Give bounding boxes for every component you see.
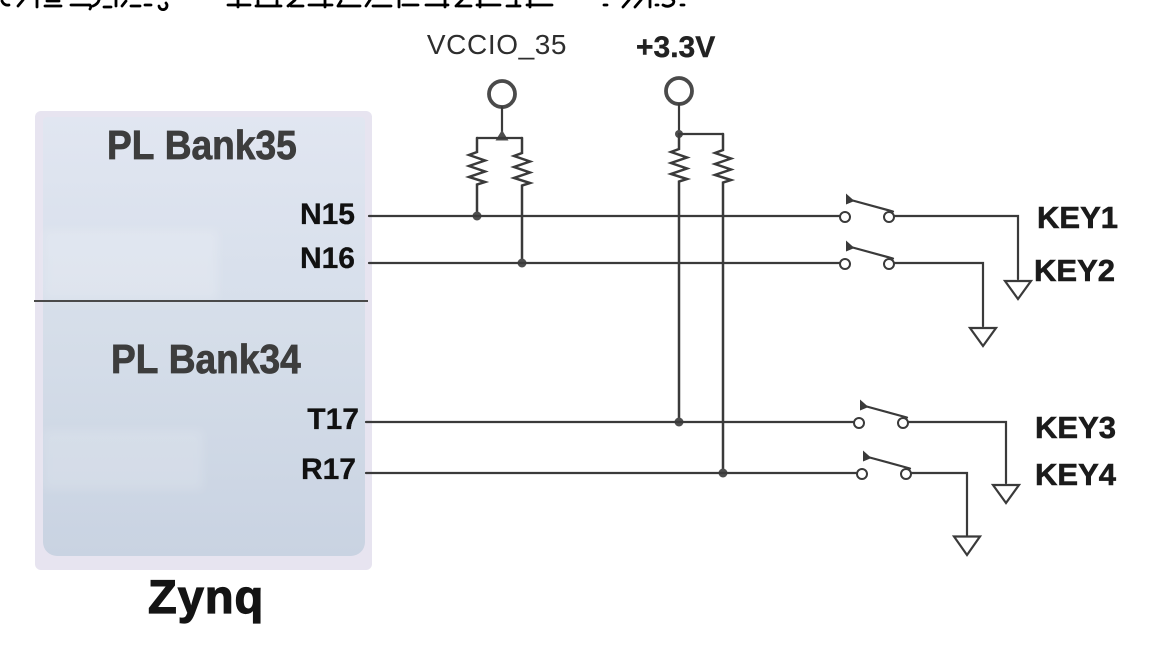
power port +3.3V circle xyxy=(666,78,692,104)
power port VCCIO_35 circle xyxy=(489,81,515,107)
switch KEY2 actuator arrow xyxy=(846,241,855,252)
switch KEY4 left contact xyxy=(857,469,867,479)
net label KEY1 xyxy=(1037,200,1118,236)
junction dot R17/resistor xyxy=(719,469,728,478)
cropped caption text bottoms (top edge) xyxy=(2,0,167,10)
label Zynq xyxy=(148,569,264,624)
switch KEY1 right contact xyxy=(884,212,894,222)
junction dot N15/resistor xyxy=(473,212,482,221)
switch KEY1 lever xyxy=(849,200,893,212)
net label KEY2 xyxy=(1034,253,1115,289)
resistor R_R17 pull-up xyxy=(715,134,731,473)
switch KEY2 right contact xyxy=(884,259,894,269)
junction dot +3.3V tee xyxy=(675,130,683,138)
wire +3.3V tee bar xyxy=(679,133,723,135)
switch KEY3 actuator arrow xyxy=(860,400,869,411)
switch KEY2 lever xyxy=(849,247,893,259)
pin label N16 xyxy=(300,242,355,276)
Zynq IC body outer halo xyxy=(35,111,372,570)
junction dot N16/resistor xyxy=(518,259,527,268)
net label KEY3 xyxy=(1035,410,1116,446)
ground KEY2 xyxy=(970,328,996,346)
switch KEY1 left contact xyxy=(840,212,850,222)
net label VCCIO_35 xyxy=(427,29,567,61)
resistor R_N16 pull-up xyxy=(514,138,530,263)
switch KEY2 left contact xyxy=(840,259,850,269)
switch KEY4 actuator arrow xyxy=(863,451,872,462)
Zynq PL Bank35 section fill xyxy=(43,117,365,301)
Zynq PL Bank34 section fill xyxy=(43,301,365,556)
wire KEY4 to ground corner xyxy=(911,473,967,535)
wire VCCIO stem xyxy=(501,107,503,138)
pin label R17 xyxy=(301,453,356,487)
Bank35 inner highlight patch xyxy=(43,230,218,300)
switch KEY4 right contact xyxy=(901,469,911,479)
switch KEY1 actuator arrow xyxy=(846,194,855,205)
wire N16 xyxy=(369,262,839,264)
wire R17 xyxy=(366,472,856,474)
wire +3.3V stem xyxy=(678,104,680,134)
ground KEY1 xyxy=(1005,281,1031,299)
bank separator line xyxy=(34,300,368,302)
junction VCCIO stem arrow xyxy=(496,130,509,141)
switch KEY3 left contact xyxy=(854,418,864,428)
switch KEY3 right contact xyxy=(898,418,908,428)
ground KEY4 xyxy=(954,537,980,556)
label PL Bank35 xyxy=(107,122,297,169)
pin label N15 xyxy=(300,198,355,232)
wire VCCIO tee bar xyxy=(477,137,522,139)
Bank34 inner highlight patch xyxy=(43,430,203,490)
cropped caption text bottoms (right cluster) xyxy=(604,0,684,7)
resistor R_N15 pull-up xyxy=(469,138,485,216)
label PL Bank34 xyxy=(111,336,301,383)
wire KEY3 to ground corner xyxy=(908,422,1006,483)
wire T17 xyxy=(366,421,853,423)
net label +3.3V xyxy=(636,31,715,65)
switch KEY4 lever xyxy=(866,457,910,469)
pin label T17 xyxy=(307,403,359,437)
wire KEY2 to ground corner xyxy=(894,263,983,326)
wire N15 xyxy=(369,215,839,217)
ground KEY3 xyxy=(993,485,1019,503)
junction dot T17/resistor xyxy=(675,418,684,427)
cropped caption text bottoms (middle cluster) xyxy=(228,0,552,7)
resistor R_T17 pull-up xyxy=(671,134,687,422)
switch KEY3 lever xyxy=(863,406,907,418)
wire KEY1 to ground corner xyxy=(894,216,1018,279)
net label KEY4 xyxy=(1035,457,1116,493)
